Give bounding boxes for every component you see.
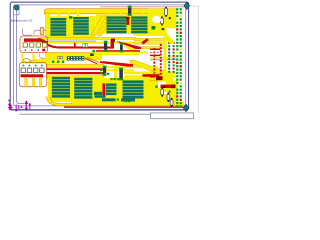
red cap U3 <box>126 17 129 25</box>
resistor R4 <box>161 87 164 96</box>
pads RN1 <box>23 43 47 51</box>
vias above U8 <box>111 78 119 80</box>
connector J1 pin column B <box>180 8 182 107</box>
copper region IC cluster top-left <box>48 16 96 38</box>
red trace stub <box>42 43 75 52</box>
connector J2 <box>67 56 85 60</box>
trace yellow mid row2 <box>96 54 140 55</box>
keepout outline left <box>16 7 24 104</box>
resistor R6 <box>170 98 173 107</box>
IC U2 <box>73 17 89 35</box>
keepout outline inner <box>13 5 185 106</box>
board bottom edge emphasis <box>12 109 188 111</box>
sheet border line bottom <box>20 113 151 115</box>
trace lavender mid <box>47 40 96 43</box>
pad navy mid <box>90 53 94 56</box>
silkscreen text <box>11 18 33 22</box>
fiducial diamond bottom-right <box>183 104 189 111</box>
trace diag yellow mid <box>124 43 135 51</box>
pin crosses RN2 <box>22 65 43 67</box>
trace rows right of U6 <box>104 66 158 71</box>
copper region IC cluster bottom-left <box>48 76 100 102</box>
copper band above cluster bottom-left <box>46 75 104 78</box>
red dash rows right <box>150 49 160 56</box>
dimension glyphs <box>15 105 22 112</box>
trace verticals top mid <box>109 14 144 18</box>
copper band right mid <box>150 74 173 81</box>
red pour inside RN1 <box>24 37 48 45</box>
keepout step around hole <box>13 5 19 15</box>
resistor R2 <box>165 7 168 17</box>
dimension diamond dot <box>8 103 11 106</box>
vias left pair mid <box>100 69 102 74</box>
via row above U5 <box>52 61 64 63</box>
red diagonal mid <box>116 42 141 50</box>
via column V2 <box>160 44 162 75</box>
IC U6 <box>74 78 92 99</box>
resistor R3 <box>161 16 164 25</box>
via with center top right <box>152 26 156 30</box>
white gap top right <box>152 16 161 23</box>
red bar left of U7 <box>102 83 105 95</box>
trace vertical right of U6 <box>114 64 117 80</box>
red trace main horizontal <box>42 39 115 49</box>
resistor R5 <box>167 93 170 102</box>
red mark on trace rows <box>142 39 149 45</box>
trace row across via field <box>150 57 176 61</box>
trace verticals below RN2 <box>25 78 42 87</box>
dimension tick <box>29 103 31 111</box>
dimension arrow <box>25 100 29 111</box>
pad dot right top <box>169 17 171 19</box>
pad bar small bottom <box>95 95 136 101</box>
copper bridge right <box>150 28 167 34</box>
red bar RN2 <box>21 74 44 77</box>
copper area under connector J2 <box>45 52 102 60</box>
vias pair bottom mid <box>117 99 119 101</box>
red trace row mid2 <box>96 50 140 51</box>
red trace right with cap <box>143 74 163 80</box>
sheet border line right <box>190 6 199 113</box>
copper bottom band <box>47 97 185 106</box>
trace salmon top <box>100 6 187 8</box>
diode D2 <box>120 43 123 53</box>
trace thin rows right middle <box>134 33 167 49</box>
dimension star <box>8 105 13 111</box>
wire arcs above RN2 <box>23 59 35 63</box>
pads RN2 <box>21 68 44 73</box>
trace row mid <box>90 51 148 53</box>
svg-text:alphaboy pcb v.02: alphaboy pcb v.02 <box>11 18 33 22</box>
copper pour top band <box>44 9 176 14</box>
pads mid pair <box>83 44 88 48</box>
IC U3 <box>107 16 127 33</box>
component RN2 outline <box>19 63 47 87</box>
trace vertical columns right field yellow <box>164 26 167 80</box>
IC U8 <box>123 80 144 98</box>
dimension dot <box>8 100 10 102</box>
copper region IC cluster top-mid <box>96 15 150 35</box>
trace lavender right <box>150 52 161 54</box>
red diagonal to right mid <box>100 61 133 66</box>
IC U4 <box>131 16 148 33</box>
copper pour top right region <box>148 9 176 29</box>
red trace bottom long <box>64 107 183 108</box>
diode D3 <box>128 6 132 16</box>
pad navy right <box>162 28 165 30</box>
vias top right pair <box>104 73 158 103</box>
trace bus diagonal left of U3 <box>91 16 111 36</box>
IC U7 <box>106 83 117 95</box>
pads left of J2 <box>58 56 63 58</box>
trace band2 horizontal <box>41 38 136 40</box>
copper field bottom right <box>140 81 178 103</box>
red trace pair above U5 <box>46 68 104 74</box>
pad bits between U1 U2 <box>69 16 72 18</box>
trace diagonal via field top <box>162 32 174 45</box>
trace bands right mid <box>124 72 176 78</box>
copper region IC cluster bottom-mid <box>100 78 158 102</box>
diode D7 <box>119 68 123 81</box>
trace yellow horizontal above U5 <box>46 64 104 67</box>
via column V4 <box>173 42 175 73</box>
diode D1 <box>104 41 108 52</box>
via green mid <box>93 50 95 52</box>
trace lavender routing left <box>23 29 46 36</box>
via column V3 <box>168 42 170 73</box>
via column V1 <box>153 48 155 74</box>
red thin diagonals near J2 <box>85 57 99 64</box>
mounting hole H1 <box>14 5 19 10</box>
component R1 vertical <box>40 27 44 35</box>
trace diagonal to via field <box>130 60 164 73</box>
diode D6 <box>103 66 107 76</box>
IC U5 <box>52 77 70 98</box>
fiducial diamond top-right <box>184 2 190 9</box>
IC U1 <box>50 18 66 36</box>
pad bar small U9 <box>94 92 102 95</box>
trace yellow curves below RN1 <box>22 54 62 63</box>
trace yellow mid row <box>45 42 136 44</box>
red bar right <box>161 85 176 89</box>
title block <box>151 113 194 119</box>
trace verticals top left <box>58 14 80 19</box>
pad dot right bottom <box>163 86 170 92</box>
board outline <box>10 2 188 110</box>
connector J1 pin column A <box>176 8 178 107</box>
component RN1 outline <box>20 36 48 53</box>
trace vertical band to RN1 <box>46 13 50 38</box>
